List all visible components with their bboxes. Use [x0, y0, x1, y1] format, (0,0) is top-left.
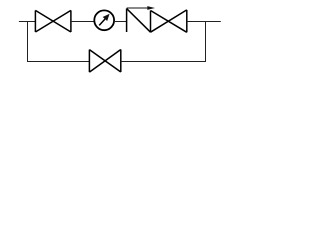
- valve V3 (bypass bowtie): [89, 50, 120, 73]
- wire bypass bottom right: [121, 61, 206, 63]
- node T-junction left: [27, 22, 29, 62]
- valve V1 (gate valve, top-left bowtie): [35, 10, 71, 32]
- valve V2 (bowtie right of control element): [151, 10, 187, 32]
- wire inlet stub: [19, 21, 36, 23]
- node T-junction right: [205, 22, 207, 62]
- gauge needle arrow: [99, 14, 109, 26]
- control valve CV flow arrow: [127, 7, 148, 9]
- gauge FI (flow indicator circle): [94, 10, 114, 30]
- control valve CV left element: [127, 9, 151, 33]
- wire valve V1 to gauge: [71, 21, 95, 23]
- wire bypass bottom left: [27, 61, 89, 63]
- wire outlet: [187, 21, 221, 23]
- wire gauge to control valve: [114, 21, 127, 23]
